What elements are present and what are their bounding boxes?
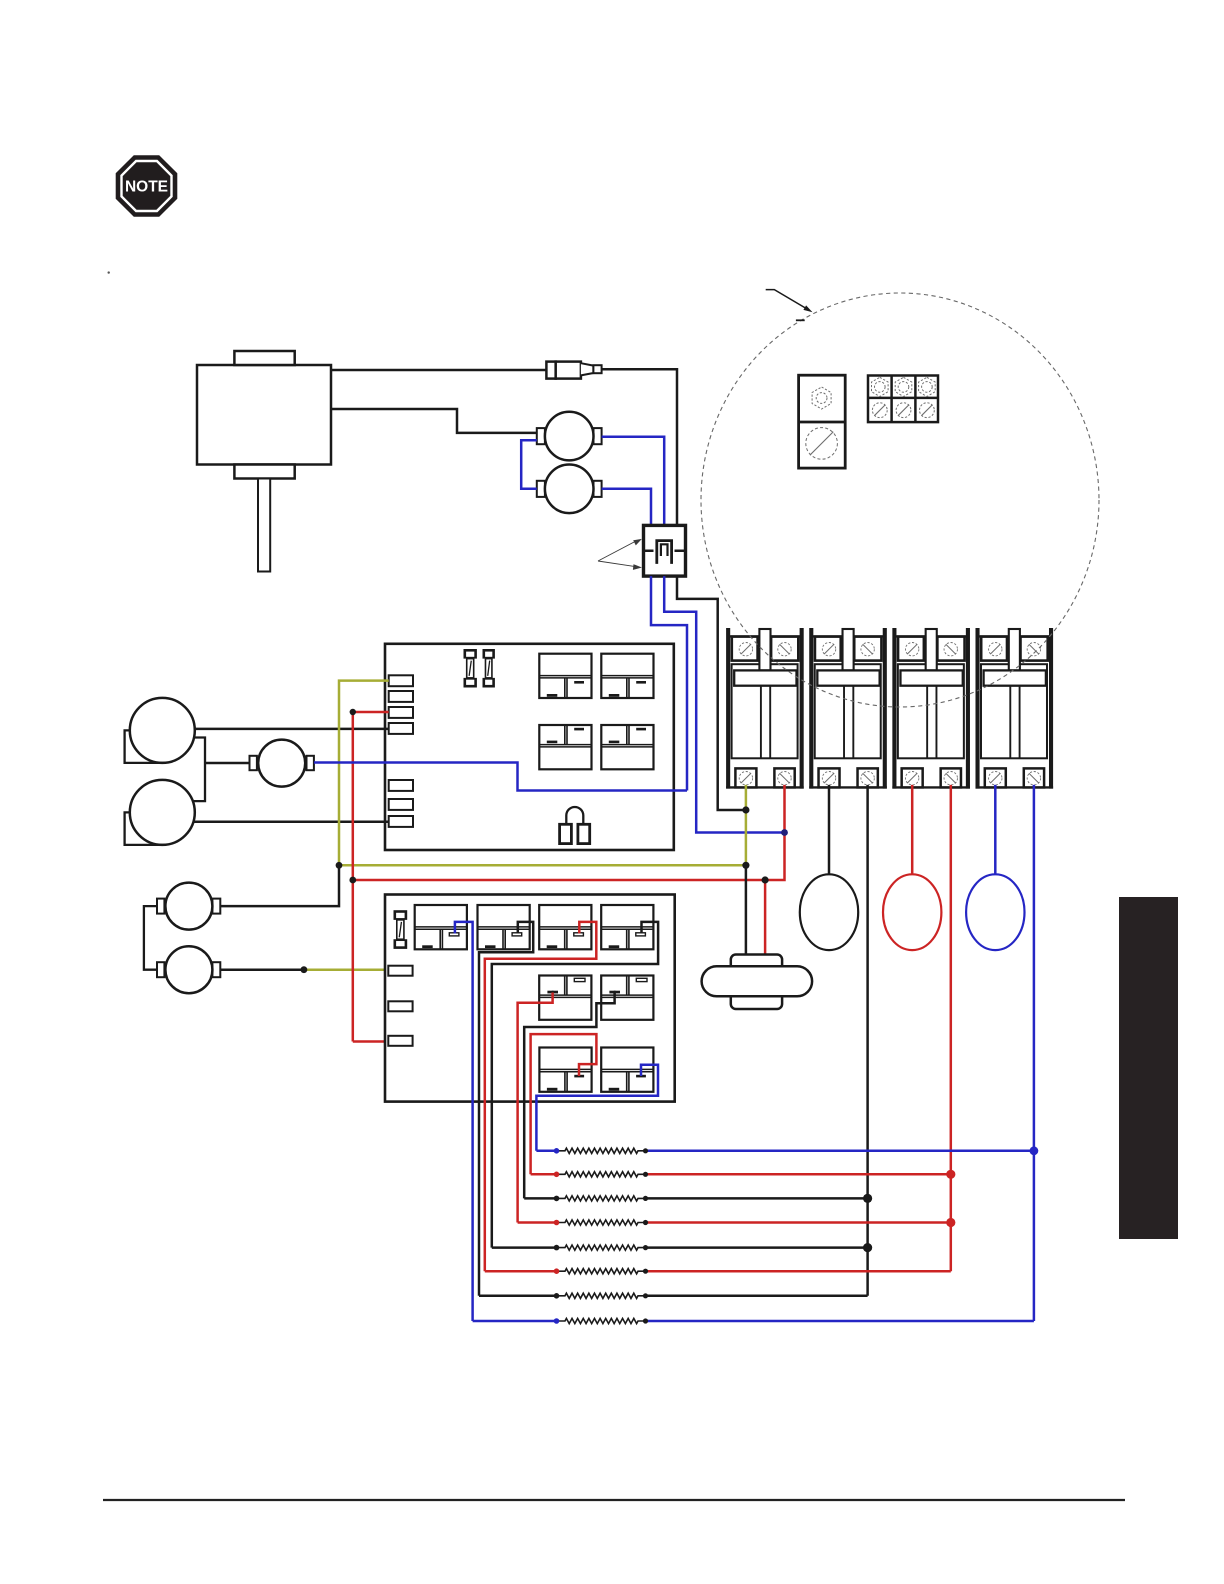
terminal T5 upper board: [389, 780, 413, 791]
red wire to board T3: [353, 711, 389, 714]
relay K11 lower board: [539, 1048, 591, 1092]
red wire K11 to resistor row2: [531, 1034, 597, 1174]
blower motor M1: [197, 351, 331, 572]
wire link to motor M2: [205, 762, 250, 765]
blue wire CB4 left to oval: [994, 785, 997, 874]
relay K5 lower board: [415, 905, 467, 949]
junction black row5: [863, 1243, 872, 1252]
relay K10 lower board: [601, 976, 653, 1020]
red wire to transformer: [764, 880, 767, 955]
resistor R1: [557, 1148, 646, 1153]
jumper plug symbol: [560, 807, 590, 844]
terminal T2 upper board: [389, 691, 413, 702]
blue wire plug to CB1 red: [664, 576, 784, 832]
resistor R8: [557, 1318, 646, 1323]
inducer blower B1: [125, 698, 195, 763]
red wire vertical run: [352, 712, 355, 1042]
relay K2 upper board: [601, 654, 653, 698]
junction olive M3: [336, 862, 343, 869]
olive wire horizontal run: [339, 864, 746, 867]
circuit breaker CB1: [726, 628, 804, 789]
junction red row4: [946, 1218, 955, 1227]
circuit breaker CB4: [975, 628, 1053, 789]
transformer T1: [702, 955, 813, 1010]
junction board T3 red: [350, 709, 356, 715]
motor M3: [157, 883, 220, 930]
relay K8 lower board: [601, 905, 653, 949]
wire resistor R1 to vertical: [646, 1150, 1034, 1153]
resistor R4: [557, 1220, 646, 1225]
black wire K6 to resistor row7: [479, 922, 533, 1296]
footer rule: [103, 1499, 1125, 1501]
upper control board: [385, 644, 674, 850]
circuit breaker CB3: [892, 628, 970, 789]
terminal nut detail box: [799, 375, 846, 468]
blue wire K5 to resistor row8: [455, 922, 473, 1321]
blue wire E2 to plug: [602, 489, 651, 526]
wire to resistor R8: [473, 1320, 557, 1323]
black wire K10 to resistor row3: [524, 993, 614, 1199]
small dash: [796, 319, 805, 321]
junction red row2: [946, 1170, 955, 1179]
wire blower link: [193, 738, 205, 802]
black wire B2 to board T7: [193, 821, 389, 824]
red wire CB3 right vertical: [950, 785, 953, 1271]
wire nut oval blue: [966, 874, 1024, 950]
junction blue row1: [1030, 1146, 1039, 1155]
black wire plug to CB1 olive: [677, 576, 746, 810]
resistor R3: [557, 1196, 646, 1201]
wire to resistor R3: [524, 1197, 556, 1200]
wire to resistor R4: [518, 1221, 557, 1224]
red wire K9 to resistor row4: [518, 993, 553, 1223]
terminal T3 upper board: [389, 707, 413, 718]
blue wire E1 to plug: [602, 437, 665, 526]
relay K4 upper board: [601, 725, 653, 769]
olive wire board T1 down: [339, 681, 389, 866]
junction M4 olive: [301, 966, 308, 973]
relay K9 lower board: [539, 976, 591, 1020]
wire motor-top to fuse F1: [331, 369, 546, 372]
wire to resistor R1: [536, 1150, 556, 1153]
leader arrow: [766, 290, 809, 310]
resistor R2: [557, 1172, 646, 1177]
wire motor M3-M4 link: [144, 906, 157, 970]
black wire M3 to olive junction: [220, 865, 339, 906]
wire resistor R7 to vertical: [646, 1295, 868, 1298]
stray dot: [108, 271, 110, 273]
terminal TL2 lower board: [388, 1001, 412, 1011]
wire resistor R5 to vertical: [646, 1246, 868, 1249]
relay K7 lower board: [539, 905, 591, 949]
board fuse FU2: [483, 649, 495, 659]
blue wire plug to board jog: [651, 576, 687, 790]
terminal T4 upper board: [389, 723, 413, 734]
inline fuse holder F1: [546, 362, 601, 379]
terminal T1 upper board: [389, 675, 413, 686]
red wire horizontal run: [353, 879, 765, 882]
resistor R5: [557, 1245, 646, 1250]
olive wire CB1 left drop: [745, 785, 748, 865]
relay K1 upper board: [539, 654, 591, 698]
wire to resistor R6: [485, 1270, 557, 1273]
relay K12 lower board: [601, 1048, 653, 1092]
terminal T6 upper board: [389, 799, 413, 810]
wire resistor R8 to vertical: [646, 1320, 1034, 1323]
black wire CB2 right vertical: [866, 785, 869, 1296]
wire to resistor R5: [492, 1246, 557, 1249]
terminal T7 upper board: [389, 816, 413, 827]
red wire to lower board T3: [353, 1040, 389, 1043]
NOTE octagon icon: [117, 156, 177, 216]
black wire CB2 left to oval: [828, 785, 831, 874]
blue wire element jumper: [521, 440, 537, 489]
wire resistor R4 to vertical: [646, 1221, 951, 1224]
red wire K7 to resistor row6: [485, 922, 597, 1271]
blue wire motor M2 to plug jog: [314, 763, 687, 791]
lower control board: [385, 895, 675, 1102]
resistor R7: [557, 1293, 646, 1298]
polarized plug P1: [644, 525, 686, 576]
black wire olive junction to transformer: [745, 865, 748, 954]
blue wire K12 to resistor row1: [536, 1065, 658, 1151]
wire nut oval black: [800, 874, 858, 950]
element E2: [537, 465, 602, 514]
olive wire M4 to lower board T1: [304, 968, 389, 971]
motor M4: [157, 946, 220, 993]
black wire B1 to board T4: [195, 728, 389, 731]
junction olive transformer: [742, 862, 749, 869]
terminal TL1 lower board: [388, 966, 412, 976]
junction red transformer: [762, 876, 769, 883]
board fuse FL1: [394, 910, 408, 920]
junction blue red: [781, 829, 788, 836]
wire resistor R3 to vertical: [646, 1197, 868, 1200]
black wire K8 to resistor row5: [492, 922, 658, 1248]
relay K6 lower board: [478, 905, 530, 949]
svg-text:NOTE: NOTE: [125, 179, 168, 196]
wire to resistor R2: [531, 1173, 557, 1176]
inducer blower B2: [125, 780, 195, 845]
wire resistor R6 to vertical: [646, 1270, 951, 1273]
black sidebar tab: [1119, 897, 1178, 1239]
black wire M4 lead: [220, 968, 304, 971]
plug leader arrows: [598, 539, 642, 570]
element E1: [537, 412, 602, 461]
relay K3 upper board: [539, 725, 591, 769]
resistor R6: [557, 1269, 646, 1274]
motor M2: [250, 740, 314, 787]
red wire CB3 left to oval: [911, 785, 914, 874]
terminal block 3x2 grid: [868, 376, 938, 423]
red wire CB1 right drop: [765, 785, 784, 880]
board fuse FU1: [464, 649, 477, 659]
wire to resistor R7: [479, 1295, 557, 1298]
wire fuse F1 to plug: [602, 369, 677, 525]
junction red cross: [349, 877, 356, 884]
terminal TL3 lower board: [388, 1036, 412, 1046]
dashed detail circle: [701, 293, 1099, 707]
junction black row3: [863, 1194, 872, 1203]
junction CB1 olive black: [742, 806, 749, 813]
wire resistor R2 to vertical: [646, 1173, 951, 1176]
wire nut oval red: [883, 874, 941, 950]
blue wire CB4 right vertical: [1033, 785, 1036, 1321]
wire motor to element E1: [331, 409, 537, 433]
circuit breaker CB2: [809, 628, 887, 789]
